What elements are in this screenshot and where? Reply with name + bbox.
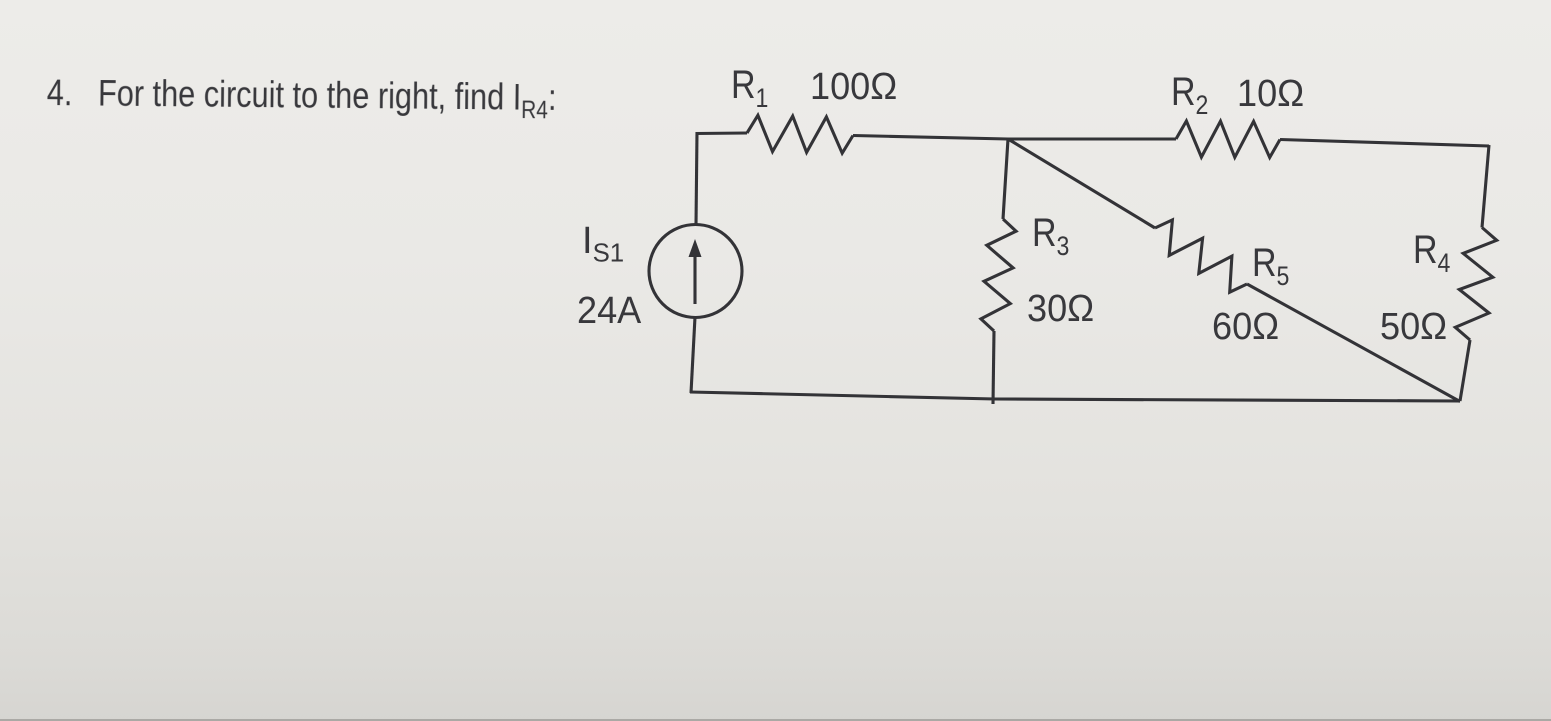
label 50ohm	[1380, 306, 1447, 349]
label 10ohm	[1237, 73, 1304, 116]
resistor R1	[747, 115, 853, 153]
label 24A	[577, 290, 641, 333]
label IS1	[582, 220, 624, 263]
label 100ohm	[810, 66, 897, 109]
resistor R4	[1455, 228, 1496, 341]
label R3	[1032, 211, 1069, 256]
label R5	[1252, 241, 1289, 286]
wire: R5 diagonal upper	[1008, 139, 1155, 228]
wire: right vertical lower	[1460, 340, 1470, 401]
wire: R3 branch upper	[1003, 139, 1008, 219]
resistor R3	[981, 219, 1016, 331]
wire: R3 branch lower	[993, 331, 994, 404]
wire: top right of node	[1008, 137, 1176, 140]
label 60ohm	[1212, 306, 1279, 349]
wire: left vertical top segment	[696, 132, 697, 225]
wire: top middle	[853, 136, 1008, 140]
label R4	[1413, 228, 1450, 273]
wire: bottom horizontal	[690, 392, 1460, 401]
label R2	[1171, 70, 1208, 115]
label 30ohm	[1027, 288, 1094, 331]
wire: left vertical bottom segment	[691, 317, 695, 393]
wire: right vertical upper	[1482, 145, 1489, 228]
current source IS1	[649, 225, 742, 318]
wire: top far right	[1280, 140, 1489, 147]
resistor R2	[1176, 121, 1280, 158]
label R1	[731, 63, 768, 108]
wire: top-left horizontal	[696, 131, 748, 135]
wire: R5 diagonal lower	[1247, 284, 1460, 402]
resistor R5	[1155, 220, 1247, 292]
title: problem statement	[47, 72, 557, 119]
